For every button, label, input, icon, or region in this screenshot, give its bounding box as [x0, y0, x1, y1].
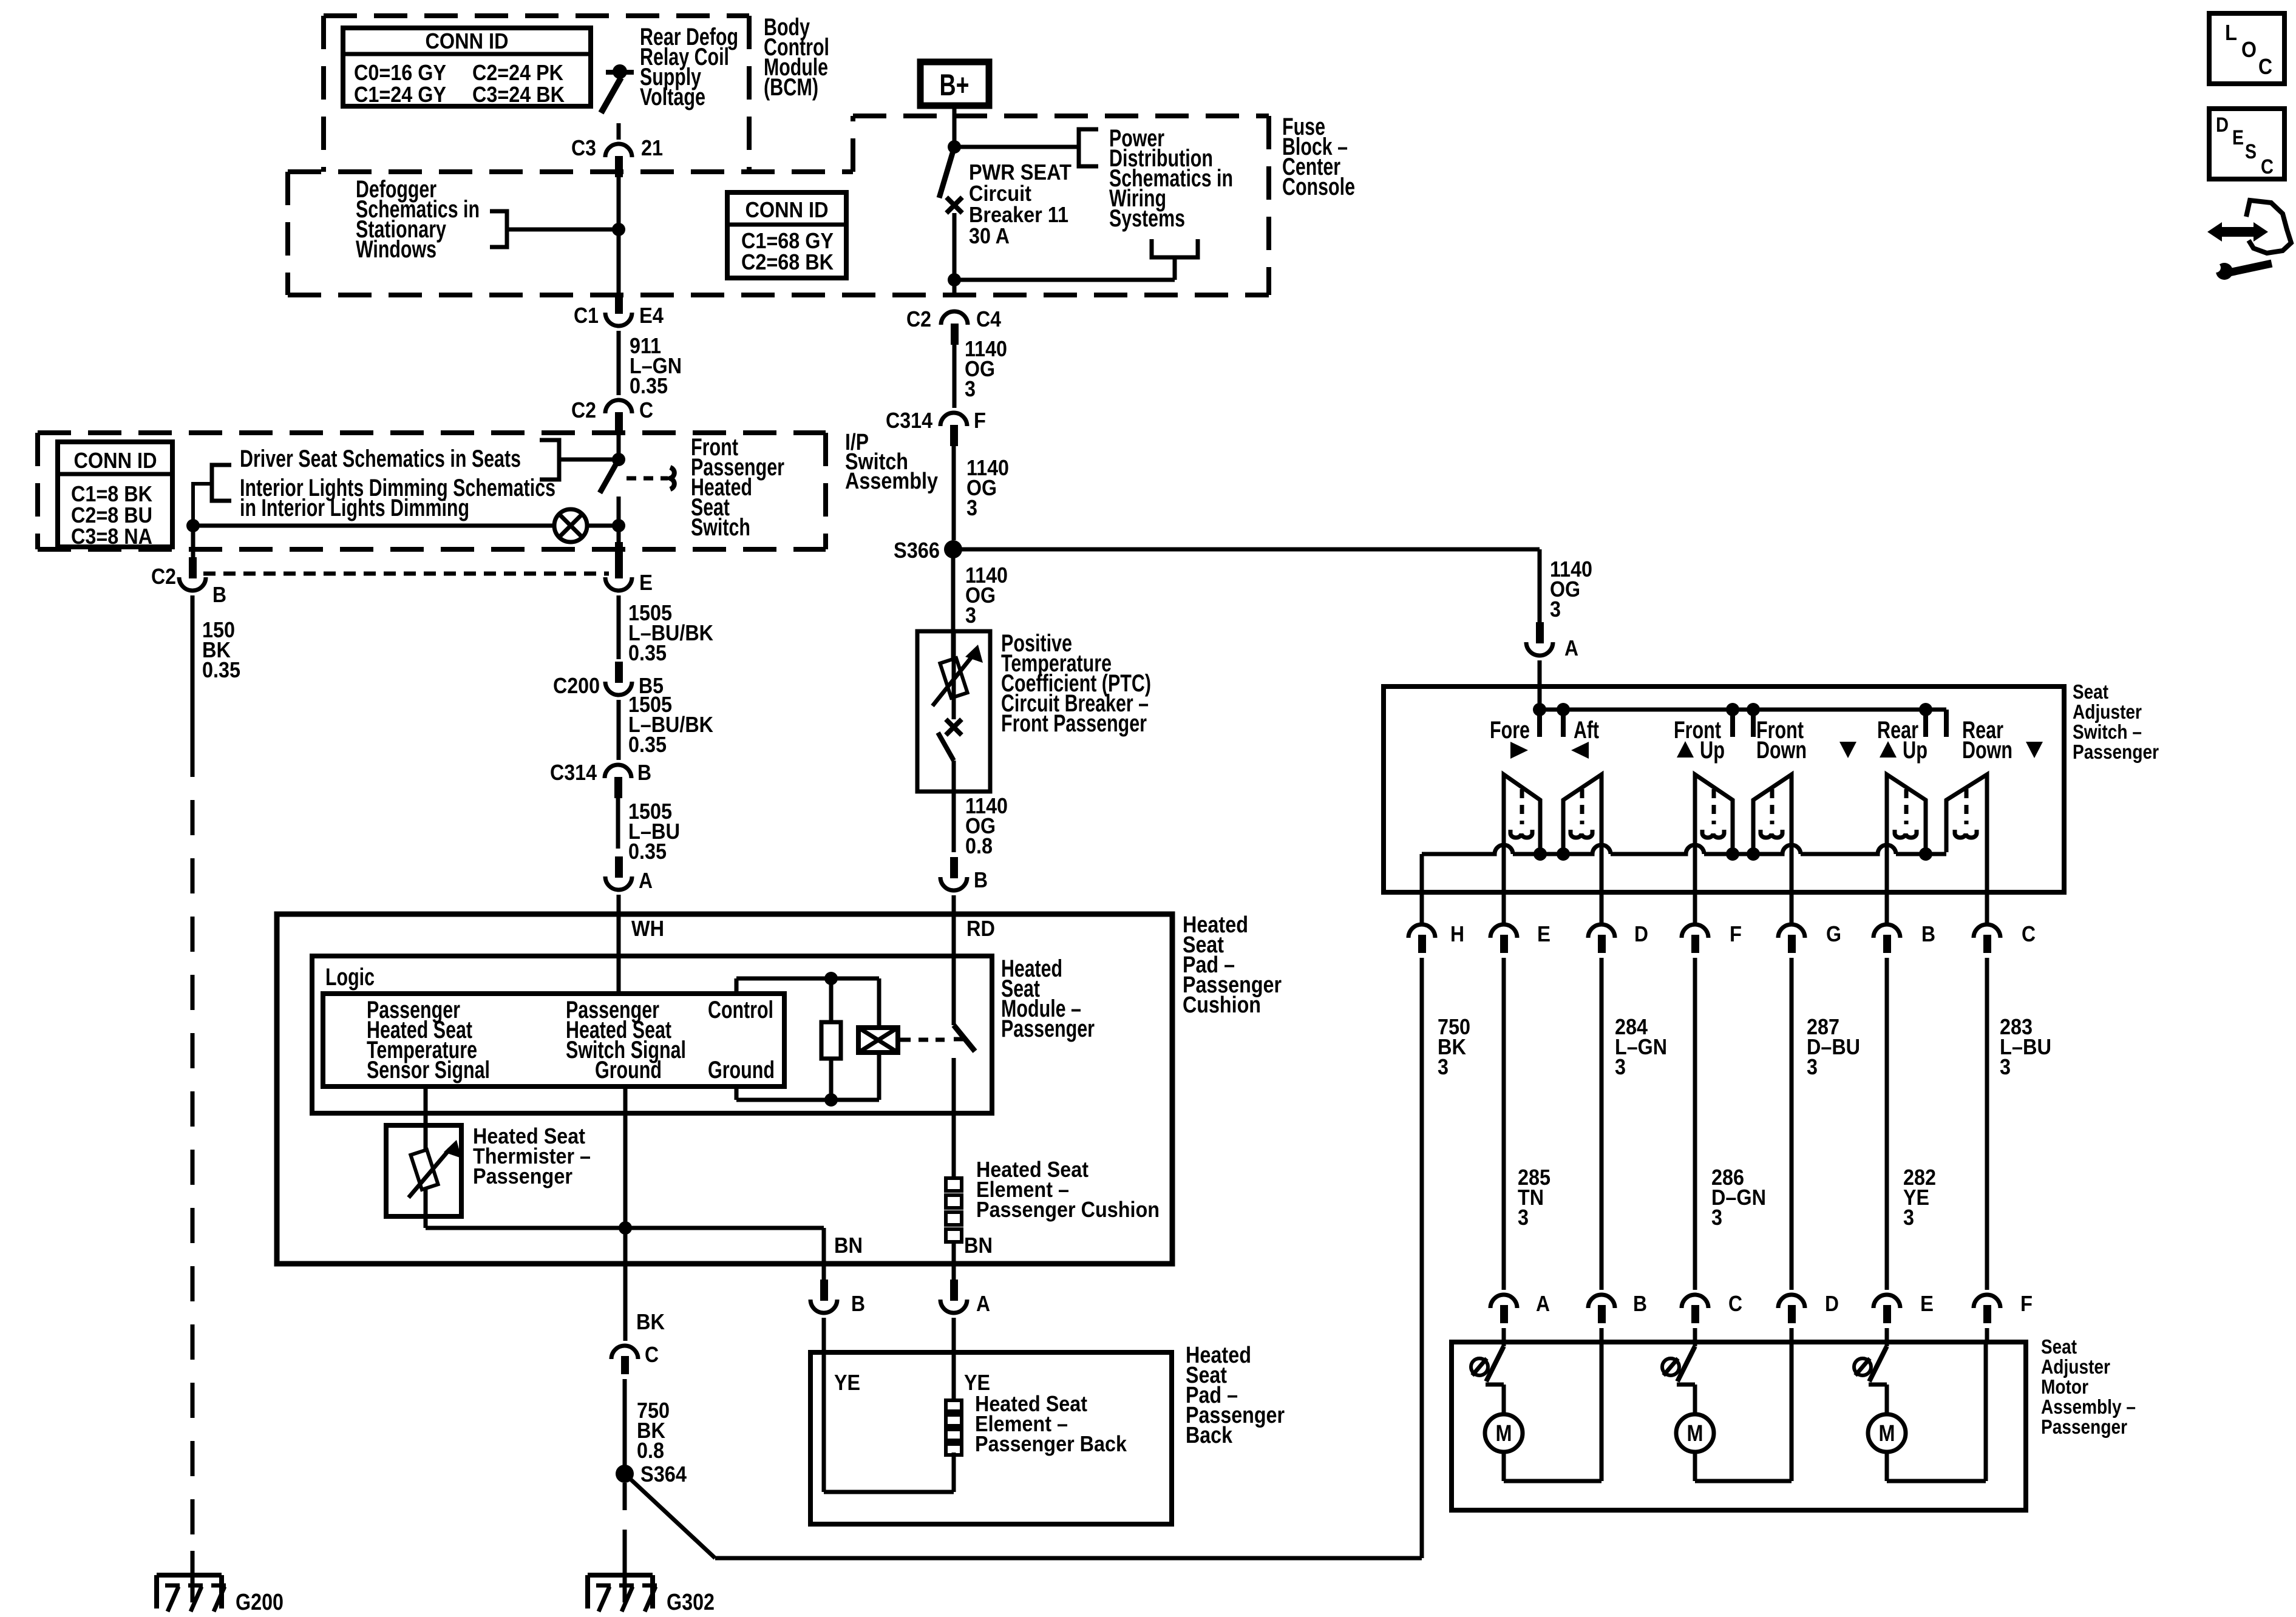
wire (dashed) to ground G200 [191, 742, 195, 1602]
connector B (motor assembly) [1588, 1291, 1647, 1342]
svg-text:3: 3 [966, 495, 977, 520]
svg-text:3: 3 [1438, 1054, 1449, 1079]
reference bracket: power distribution schematics [948, 129, 1098, 166]
svg-text:Back: Back [1186, 1423, 1233, 1448]
relay coil (solenoid) [858, 1028, 945, 1053]
svg-text:0.35: 0.35 [630, 373, 668, 398]
svg-text:Motor: Motor [2041, 1375, 2088, 1398]
svg-text:F: F [1730, 921, 1742, 946]
svg-text:3: 3 [965, 603, 976, 628]
label Front Down + arrow [1756, 717, 1856, 764]
svg-text:Up: Up [1903, 737, 1927, 764]
svg-text:BN: BN [834, 1233, 863, 1258]
svg-text:A: A [639, 868, 653, 893]
icon box DESC [2209, 109, 2284, 179]
svg-text:Adjuster: Adjuster [2041, 1355, 2110, 1378]
connector C200 pin B5 [553, 662, 664, 698]
svg-text:B+: B+ [940, 68, 970, 102]
wire 287 D-BU 3 [1792, 958, 1860, 1290]
svg-text:E4: E4 [639, 303, 664, 328]
svg-text:B: B [637, 760, 651, 785]
control loop wiring (relay drive) [736, 972, 879, 1107]
lamp: switch illumination (dimming) [193, 509, 625, 542]
svg-text:E: E [2232, 126, 2244, 149]
reference bracket right: driver seat switch link [540, 440, 619, 480]
svg-text:B: B [974, 867, 988, 892]
svg-text:Passenger: Passenger [473, 1164, 572, 1188]
label Power Distribution Schematics in Wiring Systems [1109, 125, 1233, 232]
svg-text:0.35: 0.35 [628, 839, 667, 864]
svg-text:3: 3 [1615, 1054, 1626, 1079]
connector C314 pin B [550, 760, 651, 798]
svg-text:CONN ID: CONN ID [74, 448, 157, 473]
svg-text:Ground: Ground [708, 1057, 775, 1083]
label Seat Adjuster Motor Assembly - Passenger [2041, 1335, 2136, 1438]
svg-text:C200: C200 [553, 673, 600, 698]
node: dimming feed junction [186, 519, 200, 532]
wire 1140 OG 3 (C314-F to splice S366) [954, 441, 1009, 540]
wire: element to BN connector [952, 1242, 956, 1278]
svg-text:3: 3 [1807, 1054, 1818, 1079]
svg-text:WH: WH [631, 916, 664, 941]
svg-text:Sensor Signal: Sensor Signal [367, 1057, 490, 1083]
svg-text:Down: Down [1962, 737, 2012, 764]
wire: switch C out [1985, 852, 1989, 926]
reference bracket: interior lights dimming [193, 484, 211, 522]
svg-text:Up: Up [1700, 737, 1725, 764]
label YE (right) [964, 1370, 990, 1395]
connector A (pad back, BN wire) [940, 1264, 990, 1400]
connector E (switch assembly output) [605, 557, 653, 595]
wire + reference bracket to power distribution (lower) [948, 239, 1198, 286]
svg-text:CONN ID: CONN ID [426, 29, 509, 53]
wire 284 L-GN 3 [1504, 958, 1667, 1290]
connector C (module ground) [611, 1342, 659, 1374]
svg-text:Voltage: Voltage [640, 84, 705, 110]
svg-text:3: 3 [2000, 1054, 2011, 1079]
dashed region: Defogger schematics / Fuse Block - Center Console outline [288, 116, 1269, 295]
wire: switch G out [1790, 852, 1794, 926]
svg-text:in Interior Lights Dimming: in Interior Lights Dimming [240, 495, 469, 521]
svg-text:0.35: 0.35 [628, 640, 667, 665]
svg-text:B: B [212, 582, 226, 607]
connector row dashed link (C2-B to E) [203, 572, 609, 576]
svg-text:G200: G200 [236, 1590, 284, 1615]
wire 150 BK 0.35 (dimming return) [192, 595, 240, 742]
label Seat Adjuster Switch - Passenger [2073, 680, 2159, 763]
switch feed bus [1538, 710, 1946, 737]
label BN (right) [964, 1233, 993, 1258]
wire 750 BK 0.8 (C to S364) [625, 1379, 670, 1465]
svg-text:Cushion: Cushion [1183, 992, 1261, 1018]
svg-text:C1=24 GY: C1=24 GY [354, 82, 446, 107]
connector ID table (I/P harness): C1=68 GY, C2=68 BK [727, 192, 846, 278]
switch: front passenger heated seat switch (blade) [600, 453, 625, 549]
connector E (motor assembly) [1873, 1291, 1934, 1342]
svg-text:A: A [1536, 1291, 1550, 1316]
svg-text:C: C [2022, 921, 2036, 946]
svg-text:C3: C3 [571, 135, 596, 160]
circuit breaker PWR SEAT Breaker 11 30A (blade + element) [939, 147, 962, 297]
module box: Seat Adjuster Motor Assembly - Passenger [1452, 1342, 2026, 1510]
wire 1505 L-BU 0.35 (C314 to module A) [618, 793, 680, 864]
svg-text:Systems: Systems [1109, 205, 1185, 232]
resistor (relay coil shunt) [821, 1022, 841, 1059]
wire: BCM C3-21 to connector C1 (911 circuit) [612, 168, 625, 297]
label YE (left) [834, 1370, 860, 1395]
svg-text:Ground: Ground [595, 1057, 662, 1083]
connector E (adjuster switch) [1490, 921, 1550, 953]
svg-text:Windows: Windows [356, 236, 436, 263]
svg-text:Down: Down [1756, 737, 1807, 764]
wire: thermistor return / ground bus [426, 1221, 824, 1278]
switch: rear defog relay contact inside BCM [601, 64, 634, 140]
wire: heated seat switch output to E [615, 542, 623, 560]
module box: Heated Seat Pad - Passenger Back [810, 1352, 1172, 1524]
label PWR SEAT Circuit Breaker 11 30 A [969, 160, 1072, 248]
reference bracket: defogger schematics [490, 211, 619, 247]
svg-text:Assembly –: Assembly – [2041, 1395, 2136, 1418]
label I/P Switch Assembly [845, 430, 938, 494]
connector C1 pin E4 [574, 293, 664, 328]
svg-text:21: 21 [641, 135, 663, 160]
svg-text:C2=68 BK: C2=68 BK [741, 249, 834, 274]
wire: switch D out [1600, 852, 1604, 926]
svg-text:(BCM): (BCM) [764, 74, 818, 101]
label Heated Seat Thermister - Passenger [473, 1124, 591, 1188]
thermistor box [386, 1125, 461, 1216]
label BN (left) [834, 1233, 863, 1258]
ground G200 [157, 1575, 284, 1615]
svg-text:Aft: Aft [1574, 717, 1599, 744]
svg-text:G: G [1826, 921, 1841, 946]
label Fore + arrow [1490, 717, 1530, 759]
label Fuse Block - Center Console [1282, 114, 1355, 200]
switch contact: Rear Up [1887, 775, 1926, 852]
svg-text:D: D [2216, 114, 2229, 137]
label Rear Defog Relay Coil Supply Voltage [640, 24, 738, 110]
connector ID table (switch): C1=8 BK, C2=8 BU, C3=8 NA [58, 442, 172, 549]
svg-text:E: E [1537, 921, 1550, 946]
svg-text:A: A [976, 1291, 990, 1316]
labels Passenger Heated Seat Temperature Sensor Signal [367, 997, 490, 1083]
svg-text:Fore: Fore [1490, 717, 1530, 744]
label Defogger Schematics in Stationary Windows [356, 176, 480, 263]
svg-text:E: E [1920, 1291, 1934, 1316]
svg-text:D: D [1634, 921, 1648, 946]
svg-text:3: 3 [1550, 597, 1561, 622]
label Heated Seat Module - Passenger [1001, 955, 1095, 1042]
wire BK: module ground out [636, 1309, 665, 1334]
switch contact: Fore [1504, 775, 1540, 852]
svg-text:YE: YE [834, 1370, 860, 1395]
PTC circuit breaker - front passenger (box, thermal resistor, contact) [917, 631, 990, 792]
ground G302 [588, 1575, 715, 1615]
svg-text:H: H [1450, 921, 1464, 946]
svg-text:Passenger Back: Passenger Back [975, 1431, 1127, 1456]
wire: back element return [824, 1453, 954, 1492]
connector ID table (BCM): C0=16 GY, C1=24 GY, C2=24 PK, C3=24 BK [343, 28, 591, 107]
svg-text:C: C [1728, 1291, 1742, 1316]
terminal box (logic I/O) [323, 994, 784, 1086]
motor M3 (rear up/down) with thermal switch [1854, 1342, 1986, 1481]
module box: Heated Seat Module - Passenger [277, 914, 1172, 1264]
connector C314 pin F [886, 408, 986, 446]
connector G (adjuster switch) [1778, 921, 1841, 953]
svg-text:3: 3 [1711, 1205, 1722, 1230]
wire 1140 OG 0.8 (PTC to module B) [954, 792, 1008, 858]
svg-text:C0=16 GY: C0=16 GY [354, 60, 446, 85]
svg-text:0.35: 0.35 [202, 657, 240, 682]
logic box [312, 956, 992, 1113]
svg-text:C4: C4 [976, 307, 1001, 331]
svg-text:C314: C314 [550, 760, 597, 785]
svg-text:Passenger: Passenger [1001, 1015, 1095, 1042]
switch: heated seat relay contact (RD) [954, 914, 975, 1178]
connector F (adjuster switch) [1682, 921, 1742, 953]
svg-text:Control: Control [708, 997, 773, 1023]
label Body Control Module (BCM) [764, 14, 829, 101]
motor M2 (front up/down) with thermal switch [1662, 1342, 1792, 1481]
wire 286 D-GN 3 [1695, 958, 1766, 1290]
wire: switch F out [1693, 852, 1697, 926]
connector D (adjuster switch) [1588, 921, 1648, 953]
module box: I/P Switch Assembly, dashed outline [38, 433, 826, 549]
svg-text:C: C [2258, 54, 2272, 79]
label Rear Up + arrow [1877, 717, 1927, 764]
wire: switch E out [1502, 852, 1506, 926]
svg-text:E: E [639, 570, 653, 595]
connector A (seat adjuster switch feed) [1526, 622, 1578, 710]
svg-text:M: M [1496, 1421, 1512, 1446]
wire 1505 L-BU/BK 0.35 (E to C200) [619, 595, 713, 665]
label Aft + arrow [1571, 717, 1599, 759]
thermistor (variable resistor) [409, 1140, 461, 1228]
svg-text:O: O [2241, 37, 2257, 62]
svg-text:C2: C2 [906, 307, 931, 331]
svg-text:S364: S364 [640, 1462, 687, 1486]
svg-text:C314: C314 [886, 408, 932, 433]
connector D (motor assembly) [1778, 1291, 1839, 1342]
svg-text:0.8: 0.8 [637, 1438, 664, 1463]
switch contact: Aft [1563, 775, 1601, 852]
svg-text:D: D [1825, 1291, 1839, 1316]
svg-text:Switch –: Switch – [2073, 720, 2142, 743]
wire 1140 OG 3 (S366 to adjuster switch) [953, 549, 1592, 624]
svg-text:30 A: 30 A [969, 223, 1010, 248]
svg-text:3: 3 [1518, 1205, 1529, 1230]
wire 911 L-GN 0.35 [619, 331, 682, 398]
svg-text:F: F [2020, 1291, 2033, 1316]
svg-text:Logic: Logic [325, 964, 375, 991]
switch contact: Front Up [1695, 775, 1733, 852]
svg-text:B: B [851, 1291, 865, 1316]
connector F (motor assembly) [1974, 1291, 2033, 1342]
svg-text:BN: BN [964, 1233, 993, 1258]
wire 750 BK 3 (H to ground bus) [1422, 958, 1470, 1558]
svg-text:RD: RD [966, 916, 995, 941]
power feed B+ [920, 62, 989, 106]
svg-text:3: 3 [965, 376, 976, 401]
icon: navigation arrows + hand + wrench [2207, 200, 2291, 280]
svg-text:Driver Seat Schematics in Seat: Driver Seat Schematics in Seats [240, 446, 521, 472]
wire 282 YE 3 [1887, 958, 1936, 1290]
svg-text:A: A [1564, 636, 1578, 660]
splice S366 [894, 538, 962, 563]
label Heated Seat Element - Passenger Cushion [976, 1157, 1160, 1222]
svg-text:G302: G302 [667, 1590, 715, 1615]
module box: Seat Adjuster Switch - Passenger [1384, 686, 2064, 892]
icon box LOC [2209, 13, 2284, 84]
svg-text:B: B [1633, 1291, 1647, 1316]
connector A (heated seat module, WH feed) [605, 856, 653, 994]
wire (dashed) S364 to ground G302 [623, 1483, 627, 1602]
svg-text:Console: Console [1282, 174, 1355, 200]
connector C2 pin C (switch feed) [571, 398, 653, 433]
label Front Passenger Heated Seat Switch [691, 434, 784, 541]
mechanical link dashes + detent [627, 467, 674, 489]
connector C2 pin C4 (fuse block) [906, 307, 1001, 345]
svg-text:M: M [1687, 1421, 1703, 1446]
label Heated Seat Pad - Passenger Cushion [1183, 912, 1282, 1018]
svg-text:Passenger Cushion: Passenger Cushion [976, 1197, 1160, 1222]
splice S364 [616, 1462, 687, 1486]
svg-text:Passenger: Passenger [2041, 1415, 2127, 1438]
connector H (adjuster switch) [1408, 921, 1464, 953]
svg-text:L: L [2225, 20, 2237, 45]
module box: Body Control Module (BCM), dashed outline [324, 16, 749, 172]
label Heated Seat Element - Passenger Back [975, 1391, 1127, 1456]
svg-text:B: B [1921, 921, 1935, 946]
svg-text:C3=24 BK: C3=24 BK [472, 82, 565, 107]
wire: S364 to motor ground bus (diagonal) [625, 1474, 1422, 1558]
svg-text:0.35: 0.35 [628, 732, 667, 757]
label Driver Seat Schematics in Seats [240, 446, 521, 472]
wire 1140 OG 3 (breaker to C314) [954, 334, 1007, 408]
svg-text:Seat: Seat [2041, 1335, 2077, 1358]
svg-text:CONN ID: CONN ID [746, 197, 829, 222]
wire: switch B out [1885, 852, 1889, 926]
svg-text:C2: C2 [151, 564, 176, 589]
svg-text:F: F [974, 408, 986, 433]
svg-text:Switch: Switch [691, 514, 750, 541]
connector C (adjuster switch) [1974, 921, 2036, 953]
heated seat element - passenger cushion (inside module) [946, 1178, 962, 1242]
label RD wire [966, 916, 995, 941]
connector C3 pin 21 (BCM) [571, 135, 663, 177]
wire 1505 L-BU/BK 0.35 (C200 to C314) [619, 692, 713, 760]
labels Control / Ground [708, 997, 775, 1083]
svg-text:C2=24 PK: C2=24 PK [472, 60, 563, 85]
svg-text:Assembly: Assembly [845, 469, 938, 494]
label Interior Lights Dimming Schematics [240, 475, 555, 521]
label Heated Seat Pad - Passenger Back [1186, 1343, 1285, 1448]
label WH wire [631, 916, 664, 941]
svg-text:C1: C1 [574, 303, 599, 328]
wire: sensor signal to thermistor [424, 1086, 428, 1151]
svg-text:C: C [645, 1342, 659, 1367]
svg-text:C: C [639, 398, 653, 422]
svg-text:S: S [2245, 140, 2257, 163]
svg-text:BK: BK [636, 1309, 665, 1334]
wire segment module bottom to C [623, 1278, 628, 1341]
connector B (heated seat module, RD feed) [940, 857, 988, 914]
wire: C2-C to heated seat switch [617, 425, 621, 456]
svg-text:S366: S366 [894, 538, 940, 563]
svg-text:0.8: 0.8 [965, 833, 993, 858]
svg-text:C: C [2261, 155, 2274, 178]
connector A (motor assembly) [1490, 1291, 1550, 1342]
connector C (motor assembly) [1682, 1291, 1742, 1342]
svg-text:M: M [1879, 1421, 1895, 1446]
labels Passenger Heated Seat Switch Signal / Ground [566, 997, 686, 1083]
wire 1140 OG 3 (S366 to PTC breaker) [953, 549, 1008, 660]
bus junctions + contact stubs [1533, 703, 1932, 737]
svg-text:C2: C2 [571, 398, 596, 422]
label Rear Down + arrow [1962, 717, 2043, 764]
svg-text:Adjuster: Adjuster [2073, 700, 2142, 723]
connector C2 pin B [151, 557, 226, 607]
wire 283 L-BU 3 [1987, 958, 2051, 1290]
wire: B+ to circuit breaker [953, 106, 957, 147]
svg-text:Seat: Seat [2073, 680, 2108, 703]
heated seat element - passenger back [946, 1400, 962, 1455]
wire: logic ground (col2) down [623, 1086, 628, 1278]
motor M1 (fore/aft) with thermal switch [1471, 1342, 1601, 1481]
switch contact: Front Down [1753, 775, 1792, 852]
connector B (pad back, BN wire) [810, 1264, 865, 1492]
svg-text:3: 3 [1903, 1205, 1914, 1230]
wire 285 TN 3 [1518, 958, 1601, 1290]
label Front Up + arrow [1674, 717, 1725, 764]
svg-text:Front Passenger: Front Passenger [1001, 710, 1147, 737]
reference bracket: driver seat schematics [212, 465, 231, 501]
svg-text:Passenger: Passenger [2073, 741, 2159, 763]
label Positive Temperature Coefficient (PTC) Circuit Breaker - Front Passenger [1001, 630, 1151, 737]
switch common bus (to H) [1422, 845, 1946, 926]
switch contact: Rear Down [1946, 775, 1987, 852]
connector B (adjuster switch) [1873, 921, 1935, 953]
wire: junction to C2-B [191, 526, 195, 558]
svg-text:C3=8 NA: C3=8 NA [71, 524, 152, 549]
